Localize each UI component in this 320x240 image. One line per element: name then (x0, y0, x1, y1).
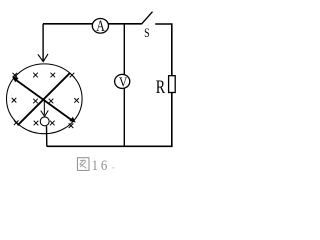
x mark r3b (34, 121, 39, 126)
ammeter U1 circle (92, 19, 108, 34)
x mark r2b (33, 99, 38, 104)
wire: top bus from wheel corner to switch (43, 23, 142, 25)
wheel: field-region circle (7, 64, 83, 134)
wire: left drop from corner down to wheel (42, 24, 44, 61)
svg-text:V: V (119, 75, 127, 90)
svg-text:A: A (96, 17, 105, 35)
wheel: spoke with two arrowheads (upper-left to lower-right) (14, 78, 74, 121)
x mark r2d (74, 98, 79, 103)
x mark r1a (merged at upper-left arrowhead) (13, 73, 18, 78)
node: junction to voltmeter branch (123, 24, 125, 147)
svg-text:R: R (156, 76, 166, 98)
switch S blade (141, 12, 152, 25)
faint speck right of caption (112, 167, 114, 168)
x mark r1b (33, 73, 38, 78)
x mark r2a (12, 98, 17, 103)
svg-text:S: S (144, 27, 149, 41)
voltmeter U2 circle (115, 74, 130, 88)
wire: center drop with arrowhead to contact ring (43, 100, 45, 115)
wire: switch right contact to top-right corner (155, 24, 172, 75)
wire: resistor bottom to bottom-right corner (171, 93, 173, 146)
arrowhead into wheel top (38, 54, 48, 62)
resistor R body (169, 76, 176, 93)
wheel: spoke (lower-left to upper-right) (18, 73, 70, 125)
caption: hand-drawn CJK glyph (tu) (77, 158, 89, 171)
field cross marks (12, 73, 79, 128)
x mark r3d (merged at lower-right arrowhead) (69, 123, 74, 128)
x mark r3c (50, 121, 55, 126)
wire: bottom bus (47, 145, 173, 147)
x mark r1d (70, 73, 75, 78)
x mark r2c (49, 99, 54, 104)
x mark r3a (merged at lower-left spoke end) (14, 120, 19, 125)
wire: ring to bottom bus (46, 126, 48, 146)
svg-text:16: 16 (92, 158, 111, 174)
contact ring (40, 117, 49, 126)
x mark r1c (51, 73, 56, 78)
